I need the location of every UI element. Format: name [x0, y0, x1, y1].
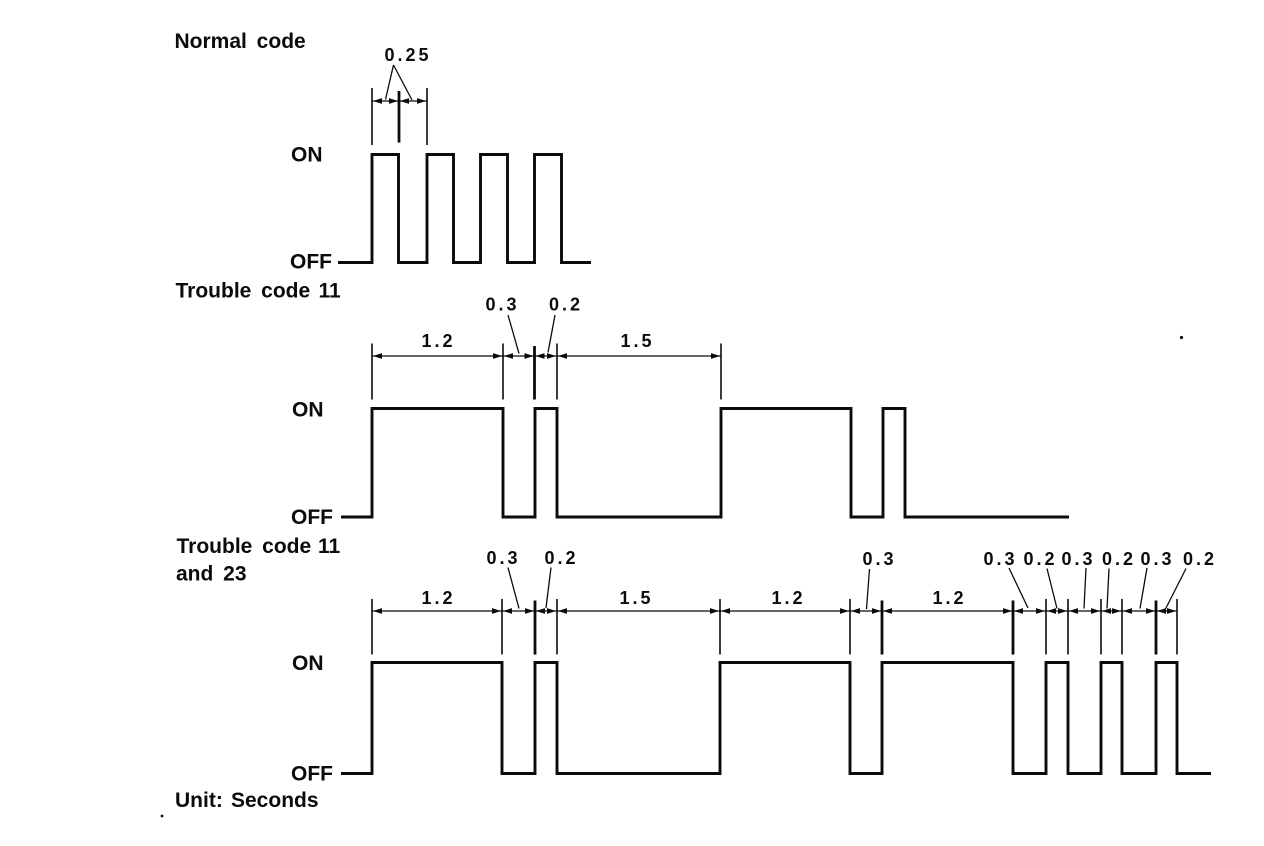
svg-text:ON: ON [292, 652, 324, 675]
waveform: trouble code 11 and 23 [341, 663, 1211, 774]
dimension extension line at x=427 (section 1) [426, 88, 428, 145]
dimension center tick at x=399 (section 1) [398, 91, 401, 143]
svg-text:0.2: 0.2 [549, 295, 583, 315]
svg-text:Unit: Seconds: Unit: Seconds [175, 789, 319, 812]
dimension center tick at x=534.5 (section 2) [533, 346, 536, 400]
dimension line 0.25+0.25 (section 1) [372, 100, 427, 102]
dimension line (section 3) [372, 610, 1177, 612]
svg-text:0.3: 0.3 [486, 548, 520, 568]
svg-text:0.3: 0.3 [862, 549, 896, 569]
svg-text:0.25: 0.25 [384, 45, 431, 65]
dimension thick ticks (section 3) [534, 601, 537, 655]
arrowheads section 3 dimension [373, 608, 382, 614]
svg-text:OFF: OFF [291, 763, 333, 786]
dimension extension lines (section 2) [371, 344, 373, 400]
leader line 0.2 (section 3 first) [546, 568, 551, 609]
svg-text:1.5: 1.5 [619, 588, 653, 608]
svg-text:ON: ON [292, 399, 324, 422]
svg-text:0.3: 0.3 [485, 295, 519, 315]
svg-text:Trouble code 11: Trouble code 11 [176, 280, 342, 303]
svg-text:OFF: OFF [290, 251, 332, 274]
leader line 0.3 (section 3 first) [508, 568, 519, 609]
leader line 0.2 (section 2) [548, 315, 555, 353]
leader lines for 0.25 [386, 65, 413, 100]
arrowheads section 2 dimension [373, 353, 382, 359]
svg-text:Trouble code 11: Trouble code 11 [177, 535, 341, 558]
svg-text:and 23: and 23 [176, 563, 247, 586]
svg-text:1.5: 1.5 [620, 331, 654, 351]
svg-text:1.2: 1.2 [771, 588, 805, 608]
arrowheads section 1 dimension [373, 98, 382, 104]
scan speck bottom left [161, 815, 164, 818]
svg-text:OFF: OFF [291, 506, 333, 529]
svg-text:0.2: 0.2 [1183, 549, 1217, 569]
dimension line (section 2) [372, 355, 721, 357]
leader lines 0.3/0.2 group (section 3 right) [1009, 568, 1028, 608]
svg-text:0.2: 0.2 [544, 548, 578, 568]
waveform: trouble code 11 [341, 409, 1069, 518]
svg-text:1.2: 1.2 [932, 588, 966, 608]
svg-text:1.2: 1.2 [421, 588, 455, 608]
scan speck top right [1180, 336, 1183, 339]
dimension extension line at x=372 (section 1) [371, 88, 373, 145]
svg-text:ON: ON [291, 144, 323, 167]
leader line 0.3 (section 3 middle) [867, 569, 870, 609]
svg-text:Normal code: Normal code [175, 30, 306, 53]
leader line 0.3 (section 2) [508, 315, 519, 354]
svg-text:1.2: 1.2 [421, 331, 455, 351]
svg-text:0.3: 0.3 [1140, 549, 1174, 569]
svg-text:0.2: 0.2 [1102, 549, 1136, 569]
waveform: normal code (4 pulses 0.25s) [338, 155, 591, 263]
svg-text:0.3: 0.3 [1061, 549, 1095, 569]
svg-text:0.2: 0.2 [1023, 549, 1057, 569]
svg-text:0.3: 0.3 [983, 549, 1017, 569]
dimension extension lines (section 3) [371, 599, 373, 655]
